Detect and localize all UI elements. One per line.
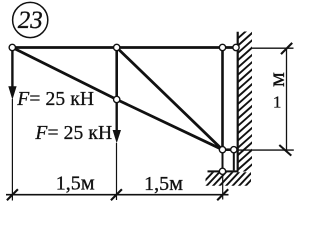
extension line right (from pin through ground) xyxy=(222,171,224,199)
node: mid height xyxy=(114,96,120,102)
top chord member xyxy=(12,46,237,49)
dimension tick left xyxy=(7,189,18,200)
svg-text:1,5м: 1,5м xyxy=(144,170,183,195)
node: top middle xyxy=(114,44,120,50)
diagonal member: top-mid node to bottom-right node xyxy=(117,48,223,150)
vertical member: top-mid to mid node xyxy=(115,48,118,100)
dimension tick bottom-right xyxy=(279,145,291,156)
wall (right, hatched) xyxy=(236,24,254,179)
bottom dimension line xyxy=(6,194,229,196)
node: top right inner xyxy=(219,44,225,50)
svg-text:23: 23 xyxy=(18,7,43,34)
bottom reference line for 1m dimension xyxy=(238,149,294,151)
ground under pin support (hatched) xyxy=(199,170,261,187)
force arrow F2 at mid node xyxy=(113,101,121,143)
dimension tick top-right xyxy=(281,43,292,54)
dimension tick mid xyxy=(111,189,122,200)
support link right vertical xyxy=(233,150,235,171)
dimension tick right xyxy=(217,189,228,200)
node: top at wall xyxy=(233,44,239,50)
bottom horizontal member to wall xyxy=(223,148,238,151)
node: support pin xyxy=(219,168,225,174)
support link left vertical xyxy=(222,150,224,172)
node: bottom right inner xyxy=(219,147,225,153)
svg-text:1: 1 xyxy=(273,93,282,112)
extension line mid xyxy=(116,143,118,200)
vertical dimension line 1m xyxy=(286,48,288,150)
node: left top xyxy=(9,44,15,50)
node: bottom at wall xyxy=(231,147,237,153)
vertical member at wall xyxy=(221,48,224,150)
svg-text:м: м xyxy=(264,72,290,87)
problem number circle 23 xyxy=(13,2,48,37)
diagonal member: left node to mid node xyxy=(12,48,116,100)
force arrow F1 at left node xyxy=(8,49,16,100)
svg-text:1,5м: 1,5м xyxy=(56,170,95,195)
svg-text:F= 25 кН: F= 25 кН xyxy=(34,123,112,144)
diagonal member: mid node to bottom-right node xyxy=(117,100,223,150)
extension line left (below arrow to dimension line) xyxy=(11,99,13,201)
top reference line for 1m dimension xyxy=(252,47,294,49)
svg-text:F= 25 кН: F= 25 кН xyxy=(16,89,94,110)
